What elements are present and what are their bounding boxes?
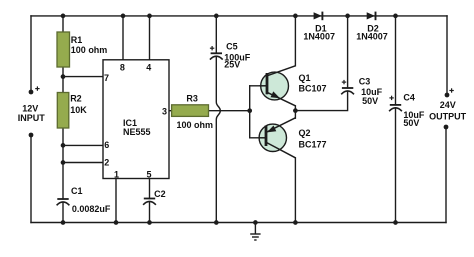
svg-text:BC107: BC107 (299, 83, 327, 93)
label C3 polarity + (342, 80, 346, 84)
svg-text:BC177: BC177 (299, 139, 327, 149)
svg-text:6: 6 (104, 140, 109, 150)
capacitor C3 (341, 88, 354, 94)
svg-text:C5: C5 (226, 42, 238, 52)
wire: Q1 base stub (250, 85, 267, 87)
wire: bottom ground rail (31, 222, 446, 224)
svg-text:8: 8 (120, 62, 125, 72)
svg-text:INPUT: INPUT (18, 113, 46, 123)
capacitor C4 (389, 105, 402, 111)
wire: Q1 collector riser to rail (294, 16, 296, 66)
wire: C2 bottom lead (149, 202, 151, 223)
svg-text:10K: 10K (70, 105, 87, 115)
svg-text:24V: 24V (440, 100, 456, 110)
node: 12V input positive terminal (29, 90, 34, 95)
svg-text:C4: C4 (403, 92, 415, 102)
capacitor C5 (210, 53, 223, 59)
wire: top +12V rail (31, 15, 447, 17)
label C5 polarity + (210, 46, 214, 50)
capacitor C1 (57, 199, 70, 205)
svg-text:R3: R3 (186, 94, 198, 104)
diode D1 (314, 12, 323, 21)
wire: R3 output to base junction (209, 110, 250, 112)
node: 24V output positive terminal (445, 93, 450, 98)
svg-text:NE555: NE555 (123, 127, 151, 137)
wire: Q2 collector drop to ground (294, 158, 296, 223)
label C4 polarity + (389, 96, 393, 100)
diode D2 (367, 12, 376, 21)
wire: pin 1 to ground (115, 179, 117, 223)
wire: left input riser top (30, 16, 32, 92)
ground symbol (250, 223, 260, 241)
node: 24V output negative terminal (444, 125, 449, 130)
svg-text:C3: C3 (359, 76, 371, 86)
svg-text:50V: 50V (403, 118, 419, 128)
svg-text:R2: R2 (70, 93, 82, 103)
wire: pin 3 to R3 (169, 110, 172, 112)
svg-text:3: 3 (162, 107, 167, 117)
wire: C1 bottom lead (62, 202, 64, 222)
svg-text:100 ohm: 100 ohm (177, 120, 214, 130)
resistor R2 (57, 93, 69, 129)
wire: R1-R2 junction segment (62, 67, 64, 93)
svg-text:Q1: Q1 (299, 73, 311, 83)
wire: C3 top lead to D1/D2 junction (347, 16, 349, 88)
svg-text:4: 4 (146, 62, 151, 72)
wire: pin 4 to top rail (149, 16, 151, 60)
wire: left input riser bottom (30, 135, 32, 223)
wire: C4 bottom lead (395, 108, 397, 222)
wire: C5 bottom lead with hop over R3 wire (216, 57, 220, 223)
wire: base bus Q1-Q2 (249, 86, 251, 138)
wire: pin 5 to C2 (149, 179, 151, 199)
wire: R2 bottom lead to C1 (62, 128, 64, 199)
node: 12V input negative terminal (29, 133, 34, 138)
svg-text:C2: C2 (154, 189, 166, 199)
wire: C5 top lead (215, 16, 217, 53)
svg-text:25V: 25V (224, 60, 240, 70)
wire: right output riser top (446, 16, 448, 95)
wire: pin 8 to top rail (122, 16, 124, 60)
svg-text:1N4007: 1N4007 (356, 32, 388, 42)
label input polarity + (35, 86, 39, 90)
wire: pin 6 branch (63, 144, 103, 146)
node: base junction (247, 108, 252, 113)
svg-text:Q2: Q2 (299, 128, 311, 138)
wire: pin 7 to R1/R2 junction (63, 76, 103, 78)
svg-text:100 ohm: 100 ohm (71, 45, 108, 55)
svg-text:1: 1 (114, 170, 119, 180)
svg-text:2: 2 (104, 158, 109, 168)
svg-text:R1: R1 (71, 35, 83, 45)
node: junction dots on bottom rail (61, 220, 398, 225)
svg-text:5: 5 (146, 170, 151, 180)
svg-text:OUTPUT: OUTPUT (429, 112, 467, 122)
wire: emitters node to C3 (295, 91, 347, 110)
transistor Q2 BC177 (PNP) (259, 118, 296, 158)
node: junction dots on top rail (61, 14, 398, 19)
transistor Q1 BC107 (NPN) (260, 66, 296, 106)
node: pin 2 junction (61, 160, 66, 165)
wire: right output riser bottom (445, 127, 447, 223)
svg-text:0.0082uF: 0.0082uF (72, 204, 111, 214)
node: emitter output junction (293, 108, 298, 113)
wire: Q2 base stub (250, 137, 266, 139)
resistor R1 (57, 32, 70, 67)
wire: Q1 emitter drop to output node (294, 106, 296, 111)
svg-text:7: 7 (104, 73, 109, 83)
wire: R1 top lead (62, 16, 64, 32)
wire: pin 2 branch (63, 162, 103, 164)
label output polarity + (449, 88, 453, 92)
svg-text:C1: C1 (71, 186, 83, 196)
wire: D2 cathode to C4 (395, 16, 397, 105)
resistor R3 (172, 105, 209, 117)
node: R1/R2/pin7 junction (61, 74, 66, 79)
wire: Q2 emitter riser to output node (294, 111, 296, 119)
capacitor C2 (143, 199, 156, 205)
svg-text:1N4007: 1N4007 (303, 32, 335, 42)
IC U1 NE555 body (103, 60, 169, 179)
svg-text:50V: 50V (362, 96, 378, 106)
node: pin 6 junction (61, 143, 66, 148)
